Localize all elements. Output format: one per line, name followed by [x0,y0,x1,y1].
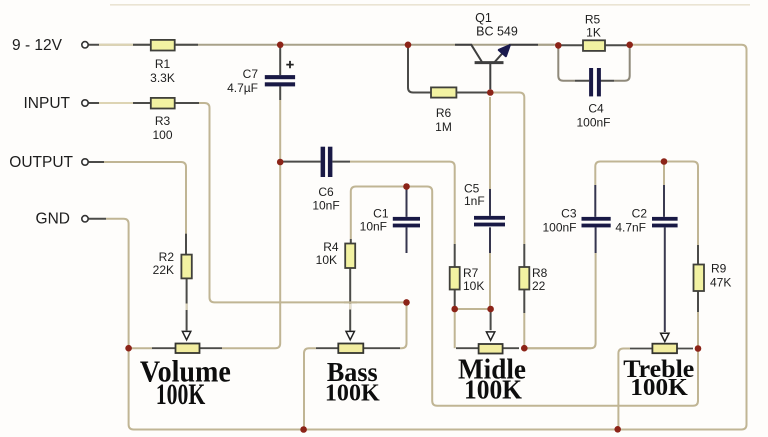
wire: C6 right run down to R7 [350,162,455,244]
resistor R8 [519,244,547,313]
svg-text:1M: 1M [435,120,452,134]
wire: C5 bottom to wiper node [489,253,491,309]
svg-text:100: 100 [152,128,172,142]
node: base junction [487,89,494,96]
resistor R4 [316,239,356,331]
potentiometer Midle [456,311,519,354]
resistor R3 [151,98,175,109]
capacitor C5 [464,182,505,254]
wire: outer loop right/bottom/GND [106,45,747,430]
svg-text:C6: C6 [318,185,334,199]
capacitor C6 [283,147,350,213]
resistor R1 [151,40,175,51]
wire: input net from R3 down and right to node [199,103,407,302]
wire: emitter to R5 tan [538,44,558,46]
node: emitter R5 left [555,42,562,49]
svg-text:100K: 100K [464,375,522,405]
svg-text:C2: C2 [632,207,648,221]
svg-text:C1: C1 [373,206,389,220]
resistor R7 [450,244,485,309]
wire: R7 node horizontal to wiper node [455,308,491,310]
svg-text:R4: R4 [323,240,339,254]
node: supply junction C7 [277,42,284,49]
capacitor C1 [360,187,420,254]
wire: Bass left down to bottom rail [304,348,316,429]
node: input/C1 junction [403,299,410,306]
svg-text:Q1: Q1 [475,11,492,25]
wire: output net down to R2 [104,162,186,234]
svg-text:10K: 10K [463,279,484,293]
wire: C1 loop / tone network big path [351,162,698,406]
node: bottom rail Treble junction [614,426,621,433]
svg-text:1K: 1K [586,26,601,40]
terminal INPUT [82,100,88,106]
wire: GND terminal stub [88,218,106,220]
wire: Midle right to C3 [524,347,590,349]
node: supply junction R6 [405,42,412,49]
svg-text:100K: 100K [630,374,688,401]
node: C2 top junction [661,158,668,165]
potentiometer Volume [152,331,222,353]
wire: C2 top tan [663,162,665,186]
transistor Q1 [455,11,538,89]
wire: supply rail 9-12V top [99,44,554,46]
wire: R8 bottom to Midle right node [523,313,525,348]
wire: OUTPUT terminal stub [88,161,104,163]
svg-text:10nF: 10nF [312,199,339,213]
svg-text:100K: 100K [156,379,206,411]
wire: Bass right up to input node [400,302,407,348]
resistor R6 [408,45,490,134]
wire: pale gap on R2 lead [186,304,188,311]
svg-text:R2: R2 [159,250,175,264]
svg-text:47K: 47K [710,276,731,290]
node: R7 bottom junction [451,306,458,313]
wire: Volume left tan [129,347,152,349]
capacitor C3 [542,185,610,253]
svg-text:C4: C4 [588,102,604,116]
wire: base node down to C5 [489,97,491,189]
terminal OUTPUT [82,159,88,165]
svg-text:10nF: 10nF [360,220,387,234]
node: Treble right junction [695,345,702,352]
svg-text:R7: R7 [463,266,479,280]
svg-text:100nF: 100nF [542,221,576,235]
wire: Treble left down to bottom rail [618,349,630,430]
svg-text:4.7nF: 4.7nF [615,221,646,235]
svg-text:1nF: 1nF [464,194,485,208]
svg-text:C7: C7 [243,67,259,81]
wire: pale gap on R4 lead at crossing [349,304,351,310]
svg-text:9 - 12V: 9 - 12V [12,37,63,54]
node: bottom rail Bass junction [300,426,307,433]
wire: INPUT terminal stub [99,102,133,104]
node: Midle wiper junction [487,306,494,313]
svg-text:4.7µF: 4.7µF [227,81,258,95]
resistor R9 [694,245,732,312]
wire: Treble right node verticals [697,312,699,400]
svg-text:R3: R3 [155,114,171,128]
svg-text:R6: R6 [436,106,452,120]
potentiometer Treble [630,333,693,353]
svg-text:GND: GND [36,211,70,228]
node: R5 right [626,42,633,49]
wire: faint top supply trace [110,4,750,6]
capacitor C4 [558,47,629,130]
terminal 9-12V [82,42,88,48]
potentiometer Bass [316,331,400,353]
svg-text:3.3K: 3.3K [150,71,175,85]
terminal GND [82,216,88,222]
wire: C3 bottom to Midle right node [524,253,595,348]
svg-text:C3: C3 [561,207,577,221]
resistor R2 [153,234,192,331]
svg-text:BC 549: BC 549 [476,25,518,39]
node: C6 junction [277,159,284,166]
svg-text:R9: R9 [711,262,727,276]
svg-text:INPUT: INPUT [24,95,71,112]
wire: R7 node down to Midle left [454,309,456,348]
wire: base node right and down through R8 to Midle right [490,93,524,245]
wire: C7 bottom vertical to Volume right [222,100,280,348]
svg-text:100nF: 100nF [576,116,610,130]
wire: R9 vertical tan segments [697,245,699,312]
svg-text:22: 22 [532,279,546,293]
node: Volume left junction [125,345,132,352]
svg-text:OUTPUT: OUTPUT [9,154,73,171]
resistor R5 [558,13,629,51]
wire: 9-12V terminal stub [99,44,133,46]
svg-text:22K: 22K [153,263,174,277]
svg-text:10K: 10K [316,253,337,267]
svg-text:R1: R1 [155,57,171,71]
svg-text:R8: R8 [532,266,548,280]
svg-text:R5: R5 [585,13,601,27]
capacitor C7 [227,47,295,100]
capacitor C2 [615,185,677,332]
node: C1 top junction [403,183,410,190]
node: Midle right junction [521,345,528,352]
svg-text:100K: 100K [325,380,380,407]
